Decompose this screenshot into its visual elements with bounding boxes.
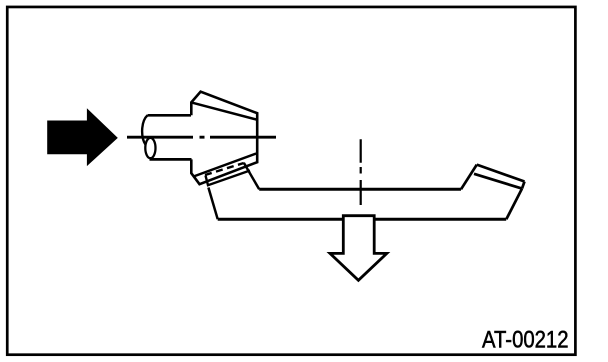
solid black arrow pointing right — [47, 108, 118, 166]
bar right end face — [522, 182, 525, 189]
neck pipe right edge — [244, 163, 259, 190]
hollow down arrow — [330, 216, 387, 281]
conical fitting outline — [191, 92, 257, 185]
bar right end band lower edge — [474, 174, 522, 189]
fitting inner bottom edge — [194, 154, 257, 177]
bar right end rising edge — [461, 165, 477, 190]
vertical centerline (dash-dot) — [360, 139, 362, 205]
pipe bar bottom edge — [218, 218, 507, 221]
horizontal centerline (dash-dot) — [127, 136, 276, 139]
collar sleeve left and bottom edges — [206, 171, 251, 186]
neck pipe left edge — [208, 188, 217, 220]
pipe bar top edge — [259, 188, 461, 191]
bar right end band top edge — [477, 165, 525, 182]
tube end cap curve — [142, 115, 147, 145]
tube cylinder bottom edge — [150, 158, 192, 161]
fitting inner top edge — [191, 102, 256, 119]
bar right lower edge — [506, 189, 522, 220]
svg-text:AT-00212: AT-00212 — [482, 327, 569, 354]
tube cylinder top edge — [148, 114, 192, 117]
tube opening ellipse — [145, 138, 155, 158]
hidden edge dashed line — [205, 163, 244, 175]
